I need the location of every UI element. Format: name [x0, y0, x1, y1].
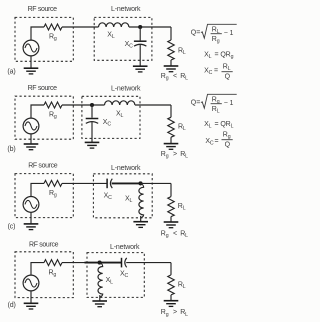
wire: source bottom to ground (b) — [30, 134, 32, 144]
RF source dashed box (d) — [15, 252, 73, 298]
L-network dashed box (c) — [93, 174, 152, 218]
wire: RL to ground (b) — [170, 137, 172, 143]
wire: source top to resistor (c) — [31, 183, 44, 196]
wire: box to capacitor, thick (d) — [85, 262, 122, 264]
ground under source (c) — [24, 224, 39, 230]
svg-text:L-network: L-network — [110, 244, 140, 251]
wire: source bottom to ground (a) — [30, 56, 32, 68]
svg-text:L-network: L-network — [111, 86, 141, 93]
wire: capacitor to load (d) — [126, 262, 171, 264]
formula XC = Rg/Q (b) — [205, 132, 232, 149]
svg-text:RF source: RF source — [28, 6, 58, 13]
svg-text:XL: XL — [116, 111, 124, 120]
svg-text:− 1: − 1 — [224, 30, 234, 37]
wire: RL to ground (c) — [170, 217, 172, 222]
wire: source bottom to ground (d) — [30, 291, 32, 303]
svg-text:− 1: − 1 — [224, 100, 234, 107]
resistor Rg (c) — [44, 180, 62, 186]
svg-text:XL: XL — [106, 277, 114, 286]
wire: capacitor to junction, thick (c) — [112, 182, 141, 184]
formula Q (a) — [191, 24, 237, 44]
load resistor RL (c) — [168, 197, 174, 217]
capacitor XC (a) — [134, 41, 147, 46]
wire: source top to resistor (a) — [31, 27, 44, 40]
svg-text:Rg: Rg — [49, 34, 57, 43]
ground under RL (d) — [164, 301, 179, 307]
svg-text:RF source: RF source — [29, 242, 59, 249]
svg-text:L-network: L-network — [111, 6, 141, 13]
svg-text:(c): (c) — [8, 224, 16, 231]
ground under source (b) — [24, 144, 39, 150]
wire: Rg to inductor (b) — [62, 104, 105, 106]
wire: junction down to capacitor (a) — [139, 27, 141, 40]
RF source dashed box (c) — [15, 174, 73, 218]
radical sign (b) — [201, 94, 237, 108]
wire: Rg to capacitor (c) — [62, 182, 107, 184]
svg-text:Q: Q — [225, 74, 231, 81]
node junction dot (c) — [138, 181, 142, 185]
AC source V (d) — [23, 275, 39, 291]
wire: inductor to ground (c) — [140, 216, 142, 222]
svg-text:L-network: L-network — [111, 165, 141, 172]
wire: source top to resistor (d) — [31, 263, 44, 276]
svg-text:(a): (a) — [7, 68, 15, 75]
svg-text:RL: RL — [223, 64, 231, 73]
svg-text:XL: XL — [125, 195, 133, 204]
ground under RL (c) — [164, 222, 179, 228]
wire: capacitor to ground (b) — [91, 122, 93, 142]
node junction dot (b) — [90, 103, 94, 107]
wire: down to load resistor (a) — [170, 27, 172, 40]
wire: source top to resistor (b) — [31, 105, 44, 118]
AC source V (a) — [23, 40, 39, 56]
load resistor RL (d) — [168, 275, 174, 295]
node junction dot (d) — [98, 261, 102, 265]
svg-text:Rg>RL: Rg>RL — [161, 309, 188, 318]
wire: inductor to load (b) — [135, 104, 171, 106]
resistor Rg (a) — [44, 24, 62, 30]
ground under source (d) — [24, 303, 39, 309]
L-network dashed box (b) — [82, 96, 140, 138]
ground under inductor (d) — [92, 301, 107, 307]
svg-text:(d): (d) — [8, 302, 16, 309]
svg-text:Rg<RL: Rg<RL — [161, 230, 188, 239]
svg-text:(b): (b) — [7, 146, 15, 153]
svg-text:XC: XC — [104, 192, 113, 201]
load resistor RL (a) — [168, 40, 174, 60]
capacitor XC (b) — [86, 119, 99, 124]
inductor XL (a) — [99, 23, 129, 27]
svg-text:Rg>RL: Rg>RL — [161, 151, 188, 160]
svg-text:RL: RL — [178, 282, 186, 291]
ground under inductor (c) — [133, 222, 148, 228]
capacitor XC (d) — [122, 258, 127, 268]
svg-text:RL: RL — [212, 106, 220, 115]
svg-text:XC=: XC= — [205, 138, 218, 147]
wire: capacitor to ground (a) — [139, 45, 141, 67]
capacitor XC (c) — [107, 179, 112, 189]
resistor Rg (d) — [44, 260, 62, 266]
ground under RL (a) — [164, 66, 179, 72]
svg-text:Rg: Rg — [49, 190, 57, 199]
radical sign (a) — [201, 24, 237, 38]
L-network dashed box (a) — [94, 17, 152, 60]
inductor XL (b) — [105, 101, 135, 105]
wire: down to load resistor (d) — [170, 263, 172, 275]
resistor Rg (b) — [44, 102, 62, 108]
inductor XL shunt (c) — [139, 183, 144, 218]
load resistor RL (b) — [168, 117, 174, 137]
svg-text:Rg: Rg — [49, 112, 57, 121]
svg-text:XL=QRg: XL=QRg — [204, 51, 234, 60]
svg-text:XL: XL — [107, 32, 115, 41]
svg-text:XL=QRL: XL=QRL — [204, 121, 234, 130]
wire: down to load resistor (b) — [170, 105, 172, 117]
svg-text:Rg: Rg — [212, 36, 220, 45]
wire: source bottom to ground (c) — [30, 212, 32, 224]
svg-text:XC: XC — [103, 119, 112, 128]
svg-text:XC: XC — [125, 41, 134, 50]
svg-text:Rg: Rg — [223, 132, 231, 141]
svg-text:Q=: Q= — [191, 30, 200, 37]
RF source dashed box (a) — [15, 17, 73, 61]
svg-text:RL: RL — [178, 124, 186, 133]
svg-text:RF source: RF source — [28, 163, 58, 170]
L-network dashed box (d) — [87, 253, 144, 298]
ground under capacitor (b) — [85, 142, 100, 148]
AC source V (b) — [23, 118, 39, 134]
ground under RL (b) — [164, 144, 179, 150]
wire: down to load resistor (c) — [170, 183, 172, 196]
wire: Rg to box (d) — [62, 262, 85, 264]
inductor XL shunt (d) — [98, 263, 103, 298]
node junction dot (a) — [138, 25, 142, 29]
formula XC = RL/Q (a) — [204, 64, 233, 81]
RF source dashed box (b) — [15, 96, 73, 139]
wire: RL to ground (a) — [170, 60, 172, 66]
svg-text:Q=: Q= — [191, 100, 200, 107]
wire: junction to load (c) — [141, 182, 172, 184]
svg-text:Rg: Rg — [49, 269, 57, 278]
wire: inductor to ground (d) — [99, 295, 101, 301]
ground under source (a) — [24, 68, 39, 74]
wire: RL to ground (d) — [170, 295, 172, 301]
ground under capacitor (a) — [133, 66, 148, 72]
formula Q (b) — [191, 94, 237, 114]
AC source V (c) — [23, 197, 39, 213]
svg-text:XC: XC — [120, 270, 129, 279]
svg-text:Rg<RL: Rg<RL — [161, 73, 188, 82]
svg-text:XC=: XC= — [204, 67, 218, 76]
wire: Rg to inductor (a) — [62, 26, 99, 28]
wire: junction down to capacitor (b) — [91, 105, 93, 118]
svg-text:RL: RL — [178, 48, 186, 57]
svg-text:Q: Q — [225, 141, 231, 148]
svg-text:RF source: RF source — [28, 85, 58, 92]
wire: inductor to load (a) — [129, 26, 171, 28]
svg-text:RL: RL — [178, 203, 186, 212]
